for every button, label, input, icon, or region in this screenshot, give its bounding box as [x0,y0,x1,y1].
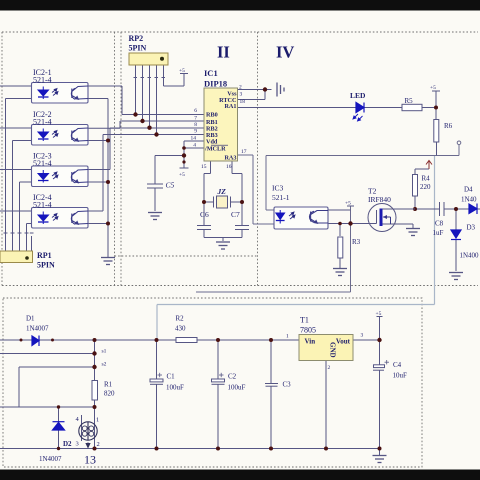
svg-text:820: 820 [104,390,115,398]
svg-text:C5: C5 [166,181,175,190]
svg-text:IRF840: IRF840 [368,195,391,204]
svg-text:T1: T1 [300,316,309,325]
svg-text:Vin: Vin [305,338,316,346]
svg-text:LED: LED [350,91,366,100]
svg-text:+5: +5 [430,85,436,91]
svg-text:2: 2 [239,85,242,91]
svg-text:1N400: 1N400 [460,252,480,260]
svg-text:R6: R6 [444,122,453,130]
svg-text:IC3: IC3 [272,184,284,193]
svg-text:IV: IV [276,43,294,62]
svg-text:D1: D1 [26,315,35,323]
svg-text:5PIN: 5PIN [37,261,55,270]
svg-text:DIP18: DIP18 [204,79,227,89]
svg-text:C6: C6 [200,210,209,219]
svg-text:521-1: 521-1 [272,193,290,202]
svg-text:220: 220 [420,183,431,191]
svg-text:1N4007: 1N4007 [39,455,62,463]
svg-text:+5: +5 [179,172,185,178]
svg-text:1N4007: 1N4007 [26,325,49,333]
svg-text:s2: s2 [102,362,107,368]
svg-text:18: 18 [240,99,246,105]
svg-text:D3: D3 [467,224,476,232]
svg-text:1N40: 1N40 [461,196,477,204]
svg-text:3: 3 [240,92,243,98]
svg-text:8: 8 [194,122,197,128]
svg-text:RA3: RA3 [224,155,236,162]
svg-text:5PIN: 5PIN [129,44,147,53]
svg-text:+5: +5 [179,68,185,74]
svg-text:16: 16 [226,164,232,170]
svg-text:R2: R2 [176,315,185,323]
svg-text:4: 4 [193,143,196,149]
svg-text:2: 2 [328,365,331,371]
svg-text:2: 2 [97,441,100,448]
svg-text:R5: R5 [405,97,414,105]
svg-text:C7: C7 [231,210,240,219]
svg-text:IC1: IC1 [204,68,218,78]
svg-text:C2: C2 [228,373,237,381]
svg-text:RP2: RP2 [129,34,144,43]
svg-text:521-4: 521-4 [33,159,52,168]
svg-text:R1: R1 [104,381,113,389]
svg-text:3: 3 [361,333,364,339]
svg-text:/MCLR: /MCLR [204,146,226,153]
svg-text:JZ: JZ [217,187,227,196]
svg-text:Vout: Vout [336,338,351,346]
svg-text:430: 430 [175,325,186,333]
svg-text:7805: 7805 [300,326,316,335]
svg-text:C3: C3 [283,381,292,389]
svg-text:17: 17 [241,149,247,155]
svg-text:3: 3 [76,441,79,448]
svg-text:521-4: 521-4 [33,76,52,85]
svg-text:II: II [217,43,230,62]
svg-text:RA1: RA1 [224,103,236,110]
svg-text:C1: C1 [167,373,176,381]
svg-text:+5: +5 [345,201,351,207]
svg-text:GND: GND [329,342,337,358]
svg-text:521-4: 521-4 [33,201,52,210]
svg-text:1: 1 [286,334,289,340]
svg-text:1uF: 1uF [433,229,444,237]
svg-text:7: 7 [194,116,197,122]
svg-text:15: 15 [201,164,207,170]
svg-text:521-4: 521-4 [33,118,52,127]
svg-text:R4: R4 [422,175,431,183]
svg-text:R3: R3 [352,238,361,246]
svg-text:Vdd: Vdd [206,139,218,146]
svg-text:9: 9 [194,129,197,135]
svg-text:100uF: 100uF [228,384,246,392]
svg-text:C4: C4 [393,361,402,369]
svg-text:14: 14 [191,136,197,142]
svg-text:13: 13 [84,453,96,467]
svg-text:D4: D4 [464,186,473,194]
svg-text:D2: D2 [63,440,72,448]
svg-text:C8: C8 [435,220,444,228]
svg-text:+5: +5 [376,311,382,317]
svg-text:100uF: 100uF [166,384,184,392]
svg-text:6: 6 [194,108,197,114]
svg-text:RP1: RP1 [37,251,52,260]
svg-text:RB0: RB0 [206,112,218,119]
svg-text:1: 1 [96,417,99,424]
svg-text:10uF: 10uF [393,372,408,380]
svg-text:s1: s1 [102,349,107,355]
